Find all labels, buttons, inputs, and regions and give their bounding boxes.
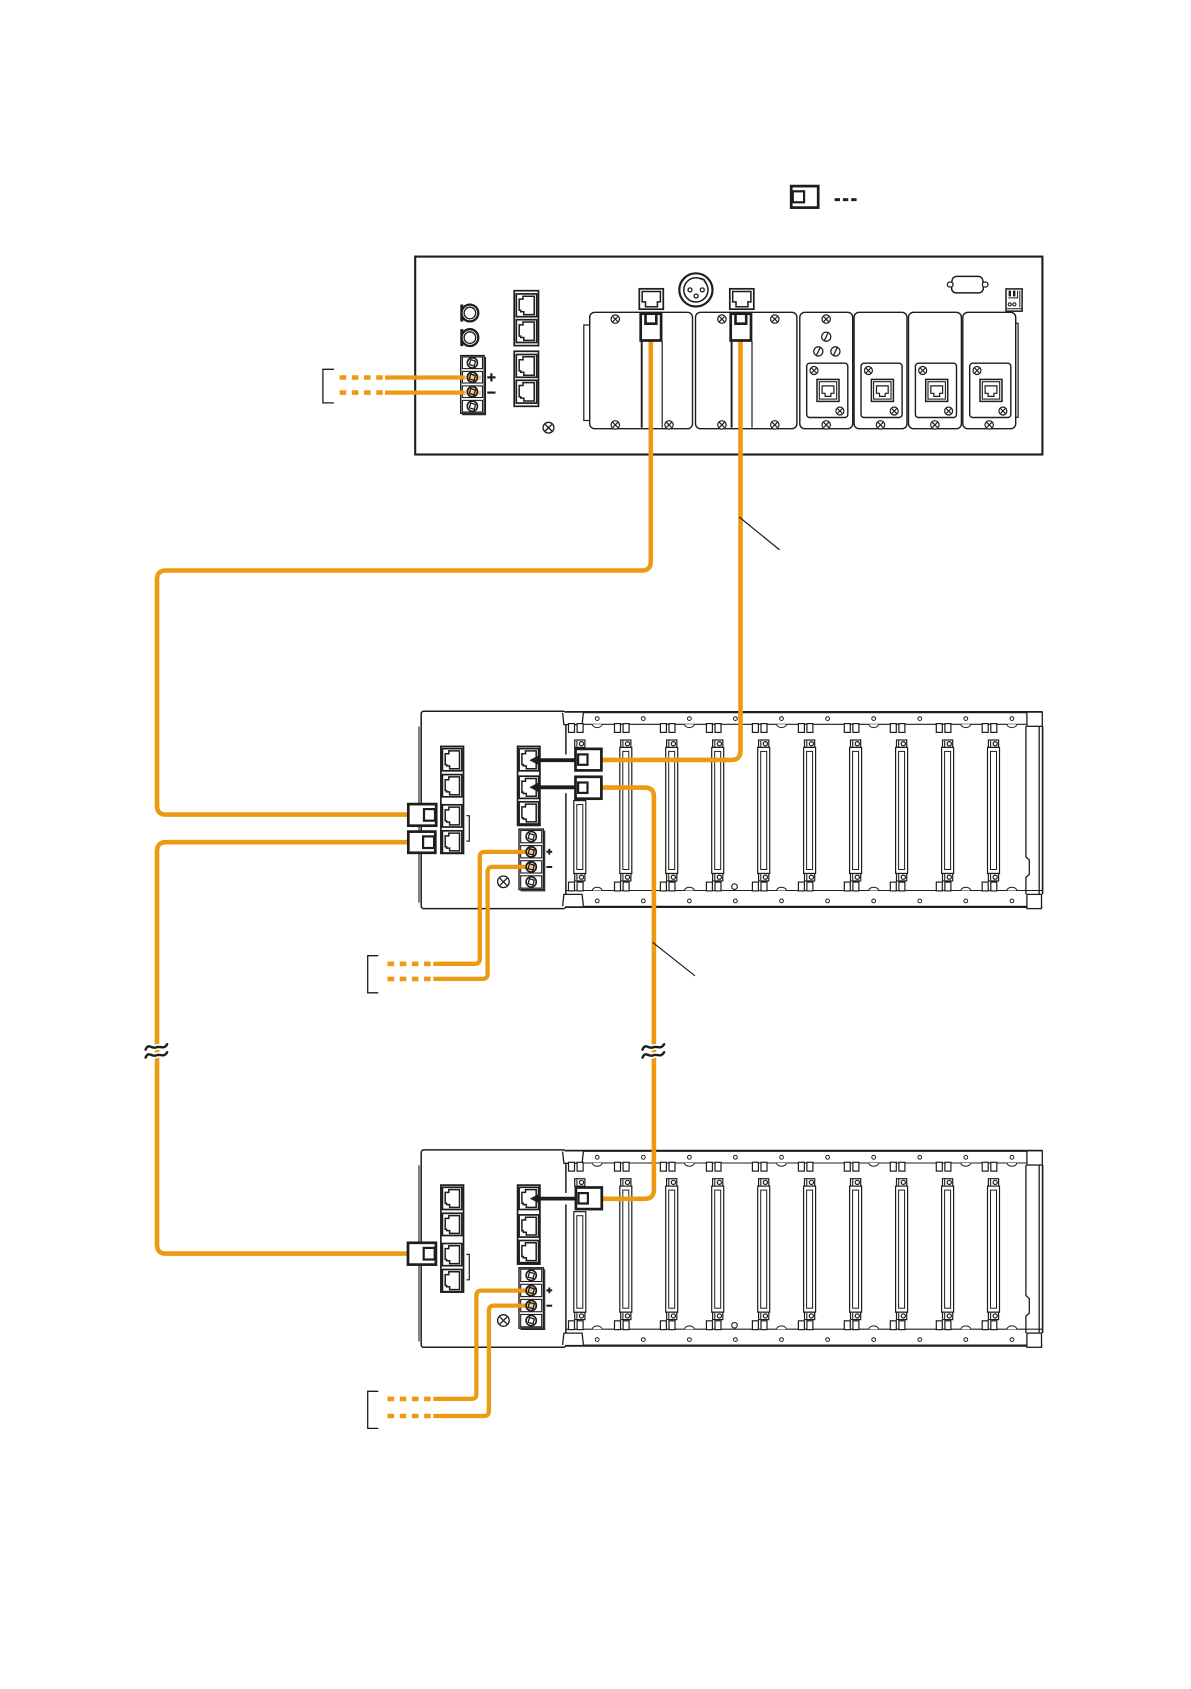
- power supply module body: [419, 711, 566, 908]
- round speaker terminal 1: [460, 305, 478, 322]
- card-edge connector slot 1: [575, 740, 585, 881]
- cable B break symbol: [146, 1044, 168, 1057]
- terminal screws over wires: [526, 847, 536, 872]
- card-edge connector slot 6: [804, 1179, 816, 1320]
- plus label (main unit): [487, 373, 495, 381]
- round speaker terminal 2: [460, 329, 478, 346]
- expansion card slot 4: [854, 312, 907, 429]
- insertion arrow middle plug 2: [529, 782, 575, 793]
- card-edge connector slot 4: [712, 1179, 724, 1320]
- jack pair bracket: [466, 1254, 469, 1279]
- main unit wire bracket: [323, 369, 334, 403]
- minus polarity label: [546, 1305, 552, 1307]
- minus polarity label: [546, 866, 552, 868]
- slot panel left tab: [584, 325, 590, 421]
- card-edge connector slot 3: [666, 1179, 678, 1320]
- legend RJ45 plug icon: [791, 186, 818, 208]
- terminal screws over wires: [526, 1286, 536, 1311]
- card-edge connector slot 5: [758, 740, 770, 881]
- pointer line to cable D: [653, 942, 695, 976]
- DC plus wire: [385, 850, 533, 964]
- DC plus wire: [385, 1289, 533, 1399]
- cable B: middle rack link port to bottom rack link port: [157, 842, 410, 1253]
- link port jack column (4 RJ45): [441, 1185, 464, 1292]
- XLR connector: [679, 273, 712, 306]
- expansion card slot 3: [800, 312, 853, 429]
- legend dashed-cable marks: [835, 198, 857, 201]
- card-edge connector slot 6: [804, 740, 816, 881]
- card-edge connector slot 9: [942, 1179, 954, 1320]
- cascade OUT jack (RJ45): [639, 289, 663, 309]
- main unit DC terminal block: [461, 356, 486, 415]
- middle expansion rack: [419, 711, 1043, 908]
- edge line breaks at plug rows: [564, 754, 569, 1204]
- plus polarity label: [546, 849, 552, 855]
- DC power terminal block: [519, 829, 545, 891]
- ground screw: [498, 1315, 510, 1327]
- bottom rack slot 1 shaft: [574, 1212, 586, 1313]
- pointer line to cable C: [739, 517, 779, 550]
- audio link jack module lower (2 RJ45): [514, 351, 538, 406]
- insertion arrow middle plug 1: [529, 755, 575, 766]
- card-edge connector slot 5: [758, 1179, 770, 1320]
- card-edge connector slot 10: [988, 740, 1000, 881]
- expansion slot cover 1: [590, 312, 693, 429]
- plus polarity label: [546, 1288, 552, 1294]
- main unit plus supply wire: [340, 375, 481, 379]
- rack right end plate: [1026, 712, 1043, 909]
- card-edge connector slot 2: [620, 1179, 632, 1320]
- card-edge connector slot 7: [850, 1179, 862, 1320]
- main unit minus supply wire: [340, 391, 481, 395]
- middle rack bus plug 1: [576, 749, 602, 771]
- expansion card slot 6: [963, 312, 1016, 429]
- rack bottom mounting rail: [563, 1321, 1043, 1346]
- rack right end plate: [1026, 1151, 1043, 1348]
- rack top mounting rail: [563, 712, 1043, 732]
- main unit OUT cable plug: [641, 314, 661, 341]
- main unit rear panel outline: [415, 257, 1042, 455]
- bottom rack bus plug: [576, 1188, 602, 1210]
- middle rack left link plug 2: [408, 832, 435, 853]
- chassis screw: [543, 422, 554, 433]
- card-edge connector slot 10: [988, 1179, 1000, 1320]
- DC minus wire: [385, 1304, 533, 1417]
- cable D break symbol: [643, 1044, 665, 1057]
- card-edge connector slot 4: [712, 740, 724, 881]
- expansion card slot 5: [909, 312, 962, 429]
- main unit terminal screws over wires: [467, 372, 477, 397]
- cable D: middle rack bus port to bottom rack bus port: [601, 788, 654, 1199]
- rack bottom mounting rail: [563, 882, 1043, 907]
- middle rack bus plug 2: [576, 777, 602, 799]
- insertion arrow bottom plug: [530, 1193, 576, 1204]
- middle rack slot 1 shaft: [574, 801, 586, 874]
- card-edge connector slot 7: [850, 740, 862, 881]
- card-edge connector slot 9: [942, 740, 954, 881]
- ground screw: [498, 876, 510, 888]
- RS-232 D-sub connector: [947, 276, 988, 293]
- middle rack left link plug 1: [408, 804, 436, 826]
- bus port jack column (3 RJ45): [518, 746, 540, 825]
- bus port jack column (3 RJ45): [518, 1185, 540, 1264]
- expansion slot cover 2: [696, 312, 797, 429]
- cable A: main unit OUT to middle rack left link port: [157, 341, 651, 815]
- slot panel right tab: [1012, 323, 1018, 417]
- card-edge connector slot 8: [896, 1179, 908, 1320]
- DC wire bracket: [368, 956, 379, 993]
- minus label (main unit): [487, 392, 495, 394]
- cascade IN jack (RJ45): [730, 289, 754, 309]
- card-edge connector slot 1: [575, 1179, 585, 1320]
- bottom rack left link plug: [408, 1243, 436, 1265]
- power supply module body: [419, 1150, 566, 1347]
- cable C: main unit IN to middle rack bus port plug: [601, 341, 741, 760]
- link port jack column (4 RJ45): [441, 746, 464, 853]
- main unit IN cable plug: [731, 314, 751, 341]
- card-edge connector slot 2: [620, 740, 632, 881]
- DC minus wire: [385, 865, 533, 979]
- card-edge connector slot 8: [896, 740, 908, 881]
- audio link jack module upper (2 RJ45): [514, 291, 538, 346]
- DC wire bracket: [368, 1391, 379, 1428]
- jack pair bracket: [466, 816, 469, 841]
- DC power terminal block: [519, 1268, 545, 1330]
- rack top mounting rail: [563, 1151, 1043, 1171]
- card-edge connector slot 3: [666, 740, 678, 881]
- DIP switch: [1006, 289, 1022, 311]
- bottom expansion rack: [419, 1150, 1043, 1347]
